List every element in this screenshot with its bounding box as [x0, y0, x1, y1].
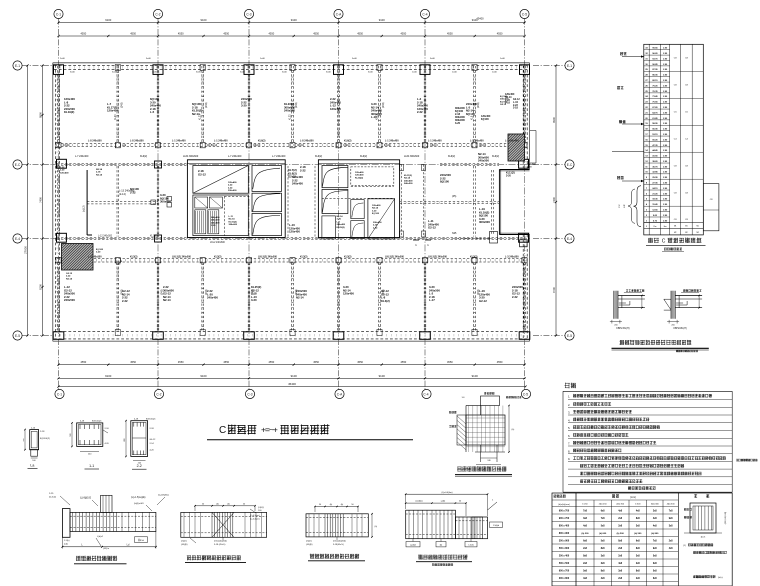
- svg-text:3-20: 3-20: [506, 174, 511, 177]
- svg-text:4550: 4550: [268, 360, 274, 364]
- svg-text:5x40: 5x40: [146, 58, 152, 60]
- svg-text:8@100: 8@100: [481, 118, 489, 121]
- svg-text:(240): (240): [205, 102, 208, 108]
- svg-text:L(b)x2: L(b)x2: [97, 536, 104, 538]
- svg-text:3-18 (45x%): 3-18 (45x%): [214, 544, 226, 546]
- svg-text:120x400: 120x400: [355, 171, 364, 174]
- svg-text:b 300: b 300: [635, 504, 641, 506]
- labels near right hatch: [500, 96, 509, 106]
- svg-text:(45): (45): [452, 195, 456, 198]
- core cells B2: [322, 167, 395, 239]
- svg-text:9100: 9100: [105, 18, 111, 22]
- joint at top edge: [472, 65, 477, 71]
- svg-text:C-A: C-A: [336, 13, 342, 17]
- svg-text:2-22: 2-22: [66, 276, 71, 278]
- svg-text:L-1 240x400: L-1 240x400: [470, 140, 484, 143]
- svg-text:(b) 500: (b) 500: [617, 533, 625, 535]
- svg-text:27000: 27000: [24, 246, 28, 254]
- joint on y145 beam: [522, 143, 527, 148]
- svg-text:18.35: 18.35: [652, 199, 658, 201]
- svg-text:6.: 6.: [568, 434, 571, 438]
- svg-text:32.85: 32.85: [652, 172, 658, 174]
- svg-text:45400: 45400: [476, 17, 484, 21]
- svg-text:(b) 600: (b) 600: [599, 533, 607, 535]
- svg-text:1x40: 1x40: [412, 72, 418, 74]
- svg-text:E-4: E-4: [567, 237, 572, 241]
- svg-text:53.15: 53.15: [652, 134, 658, 136]
- svg-text:79.25: 79.25: [652, 85, 658, 87]
- svg-text:(240): (240): [205, 289, 208, 295]
- svg-text:12.55: 12.55: [652, 210, 658, 212]
- svg-text:4550: 4550: [400, 360, 406, 364]
- svg-text:3.: 3.: [568, 411, 571, 415]
- svg-text:(b): (b): [330, 504, 333, 506]
- elevation table title: [646, 238, 706, 252]
- svg-text:N25: N25: [452, 232, 457, 235]
- svg-text:KL22: KL22: [289, 114, 292, 120]
- svg-text:9100: 9100: [379, 374, 386, 378]
- stirrup table cell texts: [559, 504, 675, 581]
- shear wall hatched right: [481, 134, 552, 161]
- svg-text:4550: 4550: [313, 360, 319, 364]
- svg-text:LKL5(2) 240x500: LKL5(2) 240x500: [172, 255, 192, 258]
- svg-text:KL29(2): KL29(2): [337, 227, 345, 229]
- right bump-out wall at hatch: [530, 130, 536, 132]
- svg-text:5x40: 5x40: [112, 72, 118, 74]
- svg-text:3-20: 3-20: [455, 122, 461, 125]
- notes box and lines: [563, 391, 732, 492]
- elevation table right appended column: [703, 184, 719, 231]
- svg-text:KL19(2): KL19(2): [64, 110, 74, 114]
- axis bubble top C-3: [244, 9, 253, 62]
- svg-text:L-8 240x500: L-8 240x500: [300, 140, 314, 143]
- grid line axis C-4: [424, 62, 426, 337]
- core block A outline: [187, 160, 285, 238]
- svg-text:KL9(2): KL9(2): [360, 155, 367, 158]
- svg-text:240x400: 240x400: [211, 221, 220, 224]
- joint on y145 beam: [56, 143, 61, 148]
- joint at bottom edge: [472, 330, 477, 336]
- svg-text:15.45: 15.45: [652, 203, 658, 206]
- svg-text:(x)x(b)(): (x)x(b)(): [415, 501, 422, 503]
- svg-text:27.05: 27.05: [652, 183, 658, 185]
- svg-text:4550: 4550: [447, 32, 453, 36]
- joint at C-2/E-C: [155, 161, 162, 168]
- svg-text:4550: 4550: [223, 32, 229, 36]
- svg-text:L-1 240x400: L-1 240x400: [428, 140, 442, 143]
- axis bubble right E-1: [533, 61, 574, 70]
- beam line vertical top bay: [423, 66, 425, 143]
- svg-text:(240): (240): [295, 102, 298, 108]
- svg-text:1x40: 1x40: [492, 72, 498, 74]
- column at top edge: [334, 65, 344, 75]
- svg-text:Hm: Hm: [664, 226, 667, 228]
- svg-text:9100: 9100: [472, 374, 479, 378]
- svg-text:C-4: C-4: [422, 13, 427, 17]
- beam line vertical bottom bay: [378, 263, 380, 333]
- svg-text:(-)(b)d: (-)(b)d: [410, 545, 416, 547]
- beam line vertical bottom bay: [156, 263, 158, 333]
- svg-text:200 x 400: 200 x 400: [559, 555, 570, 558]
- joint on y145 beam: [247, 143, 252, 148]
- labels below left hatch: [96, 249, 104, 254]
- axis bubble bottom C-2: [154, 339, 163, 399]
- svg-text:(240): (240): [382, 289, 385, 295]
- main title C tower floors 12-15 beam layout: [207, 424, 413, 440]
- svg-text:(240): (240): [477, 289, 480, 295]
- svg-text:E-1: E-1: [15, 64, 20, 68]
- joint on y260 beam: [290, 258, 295, 263]
- column at right edge: [519, 233, 529, 242]
- joint at bottom edge: [290, 330, 295, 336]
- labels right of y145 joints: [63, 145, 486, 147]
- svg-text:2-25: 2-25: [49, 493, 54, 495]
- svg-text:4550: 4550: [130, 360, 136, 364]
- beam line vertical top bay: [201, 66, 203, 143]
- svg-text:240x500: 240x500: [478, 159, 489, 163]
- svg-text:N2-14: N2-14: [337, 215, 344, 218]
- labels core block A interior: [198, 169, 206, 176]
- svg-text:3-20: 3-20: [337, 219, 342, 221]
- plan right wall dashed lines upper: [522, 65, 524, 170]
- svg-text:C3x10: C3x10: [297, 145, 304, 147]
- svg-text:3x40: 3x40: [430, 58, 436, 60]
- beam line vertical top bay: [116, 66, 118, 143]
- svg-text:LKL5(2) 240x500: LKL5(2) 240x500: [258, 255, 278, 258]
- svg-text:120x400: 120x400: [107, 109, 118, 113]
- core stair cells B1: [322, 166, 348, 214]
- svg-text:3-20: 3-20: [372, 210, 377, 212]
- slab-wall detail B: [664, 289, 702, 330]
- joint at bottom edge: [377, 330, 382, 336]
- section 1-1: [70, 421, 110, 470]
- svg-text:7.: 7.: [568, 442, 571, 446]
- svg-text:KL9(2): KL9(2): [315, 155, 322, 158]
- svg-text:C3x10: C3x10: [384, 145, 391, 147]
- edge beam detail D3: [306, 504, 377, 546]
- svg-text:(b,h).: (b,h).: [718, 577, 723, 579]
- joint on y145 beam: [472, 143, 477, 148]
- svg-text:(240): (240): [161, 289, 164, 295]
- svg-text:(40.5mm): (40.5mm): [207, 145, 217, 147]
- column at bottom edge: [244, 332, 255, 340]
- joint on y260 beam: [200, 258, 205, 263]
- svg-text:(L)-0.4(per): (L)-0.4(per): [250, 517, 260, 520]
- svg-text:5x40: 5x40: [368, 72, 374, 74]
- svg-text:KL6(2): KL6(2): [258, 140, 266, 143]
- svg-text:N2-14: N2-14: [66, 277, 73, 280]
- column wash detail drawing: [449, 392, 521, 469]
- svg-text:12F: 12F: [624, 203, 626, 207]
- svg-text:38.65: 38.65: [652, 161, 658, 163]
- beam segment E-C west: [57, 163, 188, 165]
- beam line vertical top bay: [156, 66, 158, 143]
- svg-text:KL18(2): KL18(2): [150, 236, 158, 238]
- joint at top edge: [377, 65, 382, 71]
- svg-text:(m)(h): (m)(h): [306, 541, 312, 543]
- joint at C-2/E-4: [155, 235, 162, 242]
- beam line vertical top bay: [291, 66, 293, 143]
- svg-text:KL3(2): KL3(2): [130, 255, 138, 258]
- main-secondary detail title: [185, 555, 246, 562]
- svg-text:L-11: L-11: [229, 216, 234, 218]
- svg-text:2-18: 2-18: [513, 107, 518, 110]
- axis bubble right E-5: [533, 331, 574, 340]
- svg-text:56.05: 56.05: [652, 129, 658, 131]
- svg-text:240x400: 240x400: [337, 223, 346, 226]
- svg-text:8@100: 8@100: [372, 213, 380, 215]
- svg-text:3-20: 3-20: [251, 298, 257, 302]
- svg-text:4550: 4550: [80, 360, 86, 364]
- svg-text:2-22: 2-22: [228, 187, 233, 189]
- joint on y145 beam: [200, 143, 205, 148]
- svg-text:4(b) 300: 4(b) 300: [667, 504, 676, 506]
- svg-text:2-22: 2-22: [417, 110, 423, 114]
- svg-text:2-18: 2-18: [96, 172, 101, 174]
- notes side small text: [736, 459, 757, 462]
- svg-text:M1: M1: [697, 226, 700, 228]
- beam line vertical top bay: [473, 66, 475, 143]
- axis bubble right E-4: [533, 234, 574, 243]
- svg-text:KL3(2): KL3(2): [214, 255, 222, 258]
- beam line vertical top bay: [523, 66, 525, 143]
- svg-text:N2-14: N2-14: [163, 298, 171, 302]
- labels top-right cluster outside plan: [505, 93, 515, 105]
- joint on y260 beam: [472, 258, 477, 263]
- svg-text:5x40: 5x40: [326, 72, 332, 74]
- svg-text:(hm)x(b)(45d): (hm)x(b)(45d): [333, 541, 346, 543]
- beam line vertical inside notch wall: [491, 170, 493, 234]
- joint on y260 beam: [115, 258, 120, 263]
- svg-text:240x500: 240x500: [211, 219, 220, 222]
- svg-text:KBH2-BL(H): KBH2-BL(H): [616, 327, 629, 330]
- svg-text:C-3: C-3: [246, 13, 251, 17]
- joint on y260 beam: [422, 258, 427, 263]
- svg-text:4550: 4550: [268, 32, 274, 36]
- axis bubble bottom C-5: [521, 339, 530, 399]
- svg-text:2(b) 250: 2(b) 250: [599, 504, 608, 506]
- svg-text:(xLL3): (xLL3): [84, 205, 86, 212]
- svg-text:C: C: [662, 239, 666, 245]
- svg-text:KL16(2): KL16(2): [229, 221, 237, 223]
- column at top edge: [54, 65, 64, 75]
- svg-text:(200,128,128): (200,128,128): [725, 511, 727, 524]
- beam labels bottom bay stacks: [64, 285, 523, 303]
- column at top edge: [420, 65, 430, 75]
- axis bubble left E-5: [13, 331, 52, 340]
- svg-text:29.95: 29.95: [652, 177, 658, 179]
- column at top edge: [520, 65, 530, 75]
- beam line vertical top bay: [57, 66, 59, 143]
- svg-text:(L)8@: (L)8@: [258, 507, 264, 509]
- bottom dimension line 3: [57, 382, 526, 388]
- svg-text:M1: M1: [674, 226, 677, 228]
- svg-text:C-4: C-4: [423, 393, 428, 397]
- svg-text:58.95: 58.95: [652, 123, 658, 125]
- step change beam detail D4: [405, 492, 503, 547]
- beam line vertical bottom bay: [473, 263, 475, 333]
- svg-text:240x400: 240x400: [211, 216, 220, 219]
- beam line vertical middle bay: [473, 166, 475, 237]
- core stair cells A2: [252, 166, 282, 236]
- joint on y145 beam: [336, 143, 341, 148]
- beam line vertical bottom bay: [291, 263, 293, 333]
- svg-text:L-5: L-5: [150, 110, 155, 114]
- svg-text:L-17: L-17: [429, 298, 435, 302]
- svg-text:4550: 4550: [357, 32, 363, 36]
- svg-text:82.15: 82.15: [652, 80, 658, 82]
- svg-text:C-1: C-1: [56, 13, 61, 17]
- joint on y145 beam: [377, 143, 382, 148]
- svg-text:50.25: 50.25: [652, 139, 658, 141]
- svg-text:(b) 800: (b) 800: [651, 533, 659, 535]
- section cut 1-1 marks below core: [413, 239, 419, 241]
- svg-text:KL5: KL5: [471, 115, 474, 120]
- svg-text:(L)-0.1(per): (L)-0.1(per): [250, 514, 260, 517]
- column at bottom edge: [519, 332, 530, 340]
- column at left edge: [57, 233, 67, 242]
- svg-text:4550: 4550: [178, 360, 184, 364]
- svg-text:300x600: 300x600: [373, 222, 382, 224]
- svg-text:45400: 45400: [288, 382, 296, 386]
- wall rung texture: [57, 67, 525, 335]
- joint on y260 beam: [246, 258, 251, 263]
- column at left edge: [57, 159, 67, 168]
- stirrup table legend drawing: [684, 503, 727, 539]
- beam labels above y143 beam: [88, 140, 519, 143]
- svg-text:9100: 9100: [201, 18, 207, 22]
- svg-text:9100: 9100: [200, 374, 207, 378]
- svg-text:4550: 4550: [178, 32, 184, 36]
- svg-text:L-7 240x400: L-7 240x400: [272, 155, 286, 158]
- svg-text:L-12 240x500: L-12 240x500: [98, 236, 113, 238]
- axis bubble bottom C-1: [55, 339, 64, 399]
- right notch wall: [498, 170, 500, 235]
- svg-text:C-1: C-1: [57, 393, 62, 397]
- svg-text:E-C: E-C: [15, 163, 21, 167]
- core block B outline: [318, 160, 399, 238]
- svg-text:(h)(b)x3/4: (h)(b)x3/4: [134, 503, 144, 505]
- svg-text:2-22: 2-22: [60, 167, 65, 169]
- svg-text:G2-12: G2-12: [116, 261, 123, 263]
- svg-text:KL11(2): KL11(2): [404, 175, 412, 177]
- svg-text:L-1 240x400: L-1 240x400: [172, 140, 186, 143]
- cantilever beam detail D1: [49, 493, 169, 550]
- joint at bottom edge: [115, 330, 120, 336]
- svg-text:N2-14: N2-14: [296, 296, 304, 300]
- beam line vertical top bay: [337, 66, 339, 143]
- svg-text:4550: 4550: [313, 32, 319, 36]
- svg-text:9700: 9700: [552, 287, 556, 293]
- svg-text:2-18: 2-18: [505, 102, 510, 105]
- joint on y260 beam: [56, 258, 61, 263]
- beam line horizontal corridor right: [400, 200, 500, 202]
- svg-text:76.35: 76.35: [652, 91, 658, 93]
- svg-text:(-)15d: (-)15d: [138, 540, 144, 542]
- svg-text:C-3: C-3: [247, 393, 252, 397]
- svg-text:240x400: 240x400: [292, 182, 303, 186]
- labels middle-bay east area: [440, 173, 451, 184]
- beam line horizontal y260: [57, 258, 526, 260]
- svg-text:93.75: 93.75: [652, 58, 658, 60]
- core block A dashed inner cell: [224, 195, 249, 197]
- svg-text:900 x 700: 900 x 700: [559, 511, 570, 513]
- svg-text:300x600: 300x600: [229, 224, 238, 226]
- svg-text:1x40: 1x40: [500, 58, 506, 60]
- svg-text:5x40: 5x40: [240, 72, 246, 74]
- svg-text:73.45: 73.45: [652, 95, 658, 98]
- svg-text:9700: 9700: [39, 284, 43, 290]
- joint boxes at notch bottom: [520, 240, 528, 247]
- svg-text:L-3 240x500: L-3 240x500: [88, 255, 102, 258]
- svg-text:4550: 4550: [80, 32, 86, 36]
- svg-text:Rm: Rm: [653, 226, 656, 228]
- svg-text:LL64 300x600: LL64 300x600: [404, 155, 420, 158]
- svg-text:2-22: 2-22: [122, 299, 128, 303]
- svg-text:E-1: E-1: [567, 64, 572, 68]
- grid line axis C-A: [338, 62, 340, 337]
- svg-text:500 x 500: 500 x 500: [559, 563, 570, 565]
- svg-text:61.85: 61.85: [652, 118, 658, 120]
- svg-text:(45)(E): (45)(E): [306, 544, 313, 546]
- svg-text:(b): (b): [440, 545, 443, 547]
- svg-text:3x45: 3x45: [152, 72, 158, 74]
- step change detail title: [416, 555, 472, 567]
- svg-text:KL6(2): KL6(2): [344, 140, 352, 143]
- svg-text:(b) 500: (b) 500: [634, 533, 642, 535]
- svg-text:(240): (240): [477, 102, 480, 108]
- labels row below y143: [75, 155, 499, 158]
- svg-text:240x500: 240x500: [64, 298, 75, 302]
- elevation table cell texts: [645, 48, 699, 234]
- svg-text:99.55: 99.55: [652, 48, 658, 50]
- svg-text:(240): (240): [382, 102, 385, 108]
- svg-text:2-22: 2-22: [116, 264, 121, 266]
- rotated labels along vertical beams top bay: [114, 102, 480, 120]
- beam segment E-4 full: [57, 237, 526, 239]
- axis bubble bottom C-4: [422, 339, 431, 399]
- svg-text:500 x 800: 500 x 800: [559, 548, 570, 550]
- column at bottom edge: [153, 332, 164, 340]
- svg-text:L-8 240x500: L-8 240x500: [88, 140, 102, 143]
- right dimension line: [552, 64, 557, 336]
- beam labels above y260 beam: [88, 255, 519, 258]
- svg-text:64.75: 64.75: [652, 111, 658, 114]
- beam line vertical middle bay: [57, 166, 59, 237]
- svg-text:(hm)x(b)(45d): (hm)x(b)(45d): [214, 541, 227, 543]
- svg-text:L-19: L-19: [527, 167, 532, 169]
- svg-text:KL3(2): KL3(2): [470, 255, 478, 258]
- svg-text:96.65: 96.65: [652, 53, 658, 55]
- svg-text:KL3(2): KL3(2): [381, 299, 390, 303]
- plan top wall dashed lines: [54, 64, 528, 66]
- svg-text:(240): (240): [295, 289, 298, 295]
- column wash detail title: [455, 466, 512, 476]
- svg-text:3-20: 3-20: [241, 104, 247, 108]
- column at top edge: [244, 65, 254, 75]
- cantilever detail title: [74, 556, 127, 564]
- svg-text:47.35: 47.35: [652, 144, 658, 147]
- svg-text:9100: 9100: [379, 18, 385, 22]
- svg-text:(b): (b): [227, 503, 230, 505]
- svg-text:(b) h: (b) h: [701, 537, 706, 539]
- beam labels top edge: [70, 72, 498, 74]
- svg-text:E-5: E-5: [567, 334, 572, 338]
- svg-text:2-22: 2-22: [512, 295, 518, 299]
- svg-text:120x400: 120x400: [343, 292, 354, 296]
- svg-text:KL3(2): KL3(2): [300, 255, 308, 258]
- grid line axis E-C: [53, 164, 531, 166]
